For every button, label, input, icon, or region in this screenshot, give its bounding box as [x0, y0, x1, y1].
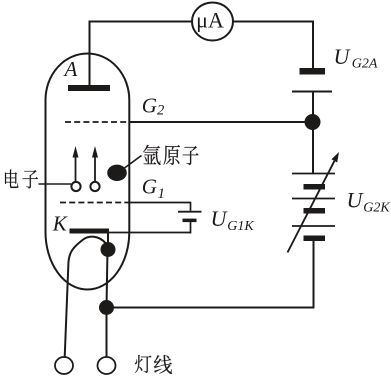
anode plate A [68, 85, 110, 91]
UG2A battery thin plate [292, 91, 332, 93]
UG2K battery thin plate 3 [292, 225, 335, 227]
heater wire curve [65, 237, 106, 357]
UG2K battery thick plate 1 [304, 184, 326, 190]
wire node to UG2K [312, 122, 314, 174]
svg-text:μA: μA [196, 7, 224, 32]
argon atom blob [107, 165, 127, 181]
label dengxian (lamp wires) char deng [135, 355, 151, 373]
electron arrow 1 head [73, 146, 79, 158]
svg-text:2: 2 [157, 102, 164, 118]
electron circle 1 [71, 182, 80, 191]
wire battery UG2A to node [312, 93, 314, 115]
wire anode to top [90, 22, 193, 86]
electron arrow 2 shaft [94, 156, 96, 181]
ammeter uA [192, 3, 233, 41]
svg-text:K: K [52, 211, 68, 235]
UG2K battery thin plate 2 [292, 198, 335, 200]
UG2K battery thick plate 2 [304, 208, 326, 214]
lamp terminal circle left [55, 357, 73, 374]
vacuum tube envelope [46, 54, 130, 290]
label yayuanzi (argon atom) char yuan [163, 145, 180, 165]
electron pointer line [39, 183, 72, 185]
svg-text:G: G [142, 93, 157, 117]
cathode plate K [70, 229, 110, 234]
label yayuanzi (argon atom) char ya [143, 145, 161, 165]
UG1K battery thin plate [178, 211, 202, 213]
wire G2 to node [129, 121, 313, 123]
label dianzi (electron) char zi [23, 170, 39, 189]
UG2A battery thick plate [300, 68, 326, 75]
wire G1 to battery UG1K [129, 203, 190, 211]
label dengxian (lamp wires) char xian [154, 355, 172, 374]
junction node G2 [305, 114, 321, 130]
junction node K [101, 242, 116, 257]
svg-text:G: G [142, 174, 157, 198]
UG2K battery thick plate 3 [304, 236, 326, 242]
wire K to battery UG1K [108, 222, 191, 234]
svg-text:A: A [63, 57, 78, 81]
svg-text:G2A: G2A [352, 56, 378, 71]
svg-text:U: U [334, 44, 352, 69]
label dianzi (electron) char dian [5, 169, 18, 188]
svg-text:1: 1 [158, 186, 166, 202]
junction node bottom [99, 300, 114, 315]
svg-text:G2K: G2K [363, 201, 390, 216]
wire UG2K to bottom [107, 241, 314, 308]
UG2K variable arrow shaft [288, 161, 335, 253]
wire meter to right corner [233, 22, 313, 69]
svg-text:U: U [347, 188, 365, 213]
UG1K battery thick plate [183, 219, 197, 223]
wire K bar to node [107, 234, 109, 244]
svg-text:U: U [211, 206, 229, 231]
UG2K variable arrow head [332, 152, 340, 163]
wire bottom node to lamp terminal [106, 308, 108, 358]
svg-text:G1K: G1K [227, 219, 254, 234]
electron arrow 1 shaft [75, 156, 77, 181]
grid G2 dashed line [65, 121, 129, 123]
electron circle 2 [90, 182, 99, 191]
grid G1 dashed line [60, 202, 129, 204]
lamp terminal circle right [98, 357, 116, 374]
wire node K to bottom node [107, 250, 108, 308]
label yayuanzi (argon atom) char zi [183, 146, 199, 165]
argon atom pointer line [125, 156, 142, 169]
UG2K battery thin plate 1 [292, 173, 335, 175]
electron arrow 2 head [92, 146, 98, 158]
